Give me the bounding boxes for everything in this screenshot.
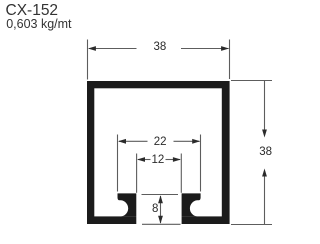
dimension 38 right: upper dimension line (264, 81, 266, 132)
dimension text 8 (152, 203, 158, 215)
dimension 38 right: upper arrowhead pointing down (262, 130, 267, 138)
dimension text 38 top (153, 41, 166, 53)
dimension text 38 right (259, 146, 272, 158)
dimension 38 top: right arrowhead (221, 46, 229, 51)
dimension 38 top: left arrowhead (88, 46, 96, 51)
dimension 12: right extension line (180, 154, 182, 193)
dimension 38 top: right extension line (229, 40, 231, 80)
dimension 8: bottom extension line (142, 223, 181, 225)
dimension 12: dimension line left segment (138, 159, 151, 161)
title CX-152 (6, 2, 59, 20)
profile inner cavity (94, 88, 222, 216)
dimension 38 top: left extension line (87, 40, 89, 80)
dimension 38 right: lower dimension line (264, 176, 266, 225)
dimension 12: left arrowhead (137, 157, 145, 162)
weight label 0,603 kg/mt (6, 17, 71, 31)
bottom slot opening (136, 200, 181, 225)
dimension 12: left extension line (136, 154, 138, 193)
profile body outer square (87, 81, 230, 224)
dimension 22: dimension line left segment (119, 140, 148, 142)
dimension 38 top: dimension line right segment (181, 48, 229, 50)
dimension 8: vertical dimension line (160, 196, 162, 223)
dimension 22: dimension line right segment (174, 140, 200, 142)
dimension 22: right arrowhead (192, 139, 200, 144)
dimension text 12 (151, 154, 164, 166)
dimension text 22 (154, 136, 167, 148)
dimension 8: bottom arrowhead pointing down (158, 216, 163, 224)
dimension 22: right extension line (200, 135, 202, 192)
right hook lip (182, 193, 201, 216)
left hook lip (118, 193, 137, 216)
dimension 38 right: bottom extension line (231, 224, 272, 226)
dimension 22: left extension line (117, 135, 119, 192)
dimension 12: right arrowhead (173, 157, 181, 162)
dimension 12: dimension line right segment (166, 159, 181, 161)
dimension 38 top: dimension line left segment (89, 48, 137, 50)
dimension 8: top arrowhead pointing up (158, 195, 163, 203)
dimension 8: top extension line (142, 194, 179, 196)
dimension 38 right: top extension line (231, 80, 272, 82)
dimension 38 right: lower arrowhead pointing up (262, 169, 267, 177)
dimension 22: left arrowhead (118, 139, 126, 144)
